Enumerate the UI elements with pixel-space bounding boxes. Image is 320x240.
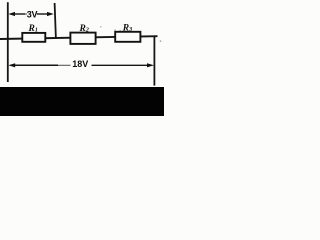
- svg-text:18V: 18V: [72, 59, 88, 69]
- svg-text:3V: 3V: [27, 9, 38, 19]
